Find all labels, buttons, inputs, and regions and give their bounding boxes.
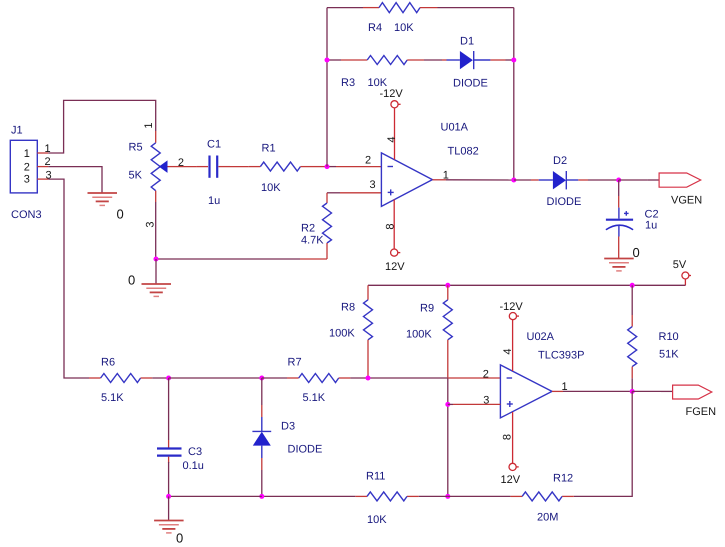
wire C2 top <box>618 180 620 196</box>
wire J1 pin2 to ground <box>48 167 102 193</box>
svg-text:1: 1 <box>24 148 30 160</box>
svg-text:U02A: U02A <box>527 331 555 343</box>
svg-text:3: 3 <box>145 222 157 228</box>
svg-text:D3: D3 <box>281 421 295 433</box>
connector FGEN <box>673 385 712 399</box>
svg-text:U01A: U01A <box>441 122 469 134</box>
junction D3 top <box>259 376 264 381</box>
junction FGEN node <box>630 389 635 394</box>
svg-text:0: 0 <box>117 207 124 222</box>
wire J1 pin3 to R6 <box>48 179 89 378</box>
svg-text:2: 2 <box>365 155 371 167</box>
wire node A to U01A pin2 <box>327 166 336 168</box>
power -12V symbol U01A <box>391 101 401 108</box>
svg-text:4.7K: 4.7K <box>301 235 324 247</box>
pin 8 wire of U01A <box>393 200 395 250</box>
wire R2 bottom row to R5 bottom <box>156 258 300 260</box>
svg-text:0.1u: 0.1u <box>183 460 204 472</box>
pin 8 wire of U02A <box>512 412 514 463</box>
svg-text:5K: 5K <box>129 170 143 182</box>
svg-text:R11: R11 <box>366 471 385 483</box>
junction output right column <box>511 178 516 183</box>
wire FGEN node down to R12 <box>574 391 632 496</box>
wire R4 top row left <box>327 7 363 9</box>
svg-text:4: 4 <box>386 136 398 142</box>
resistor R6 <box>101 374 141 383</box>
junction R5 bottom <box>154 257 159 262</box>
diode D1 <box>447 51 491 69</box>
junction R9 bottom row <box>445 494 450 499</box>
svg-text:2: 2 <box>24 161 30 173</box>
connector VGEN <box>659 173 701 187</box>
capacitor C3 <box>157 378 182 496</box>
wire left feedback column <box>326 8 328 167</box>
junction R3 left <box>325 58 330 63</box>
ground 0 below C2 <box>604 259 634 271</box>
junction R8 bottom <box>366 376 371 381</box>
svg-text:8: 8 <box>385 223 397 229</box>
resistor R1 <box>260 162 300 171</box>
wire R3 to D1 <box>407 59 424 61</box>
resistor R3 <box>367 56 407 65</box>
svg-text:3: 3 <box>24 174 30 186</box>
wire R12 to R9 column <box>510 495 522 497</box>
junction R9 top <box>445 283 450 288</box>
wire U02A output to FGEN <box>552 390 563 392</box>
diode D2 <box>539 171 579 189</box>
svg-text:10K: 10K <box>367 514 387 526</box>
svg-text:DIODE: DIODE <box>453 78 488 90</box>
wire D2 to VGEN <box>578 179 588 181</box>
svg-text:CON3: CON3 <box>11 209 42 221</box>
svg-text:R7: R7 <box>288 357 302 369</box>
capacitor C1 <box>210 156 218 178</box>
svg-text:0: 0 <box>633 245 640 260</box>
wire R5 wiper to C1 <box>168 166 180 168</box>
svg-text:R9: R9 <box>420 303 434 315</box>
svg-text:C3: C3 <box>188 446 202 458</box>
svg-text:100K: 100K <box>329 328 355 340</box>
svg-text:R5: R5 <box>129 142 143 154</box>
svg-text:D2: D2 <box>553 155 567 167</box>
svg-text:C1: C1 <box>207 139 221 151</box>
wire 5V rail <box>368 284 686 286</box>
junction D1 right <box>511 58 516 63</box>
wire D3 node to R7 <box>262 377 287 379</box>
wire R7 to U02A pin2 <box>339 377 351 379</box>
svg-text:8: 8 <box>502 434 514 440</box>
svg-text:R1: R1 <box>262 143 276 155</box>
svg-text:2: 2 <box>483 369 489 381</box>
ground 0 bottom <box>154 521 184 533</box>
svg-text:51K: 51K <box>659 349 679 361</box>
svg-text:-12V: -12V <box>500 301 524 313</box>
junction D3 bottom <box>259 494 264 499</box>
wire C3 node to D3 node <box>169 377 262 379</box>
svg-text:J1: J1 <box>11 125 23 137</box>
power 5V symbol <box>682 272 691 285</box>
svg-text:FGEN: FGEN <box>686 406 717 418</box>
svg-text:12V: 12V <box>501 474 521 486</box>
resistor R4 <box>379 3 420 13</box>
svg-text:5V: 5V <box>673 259 687 271</box>
svg-text:R6: R6 <box>101 357 115 369</box>
svg-text:0: 0 <box>128 273 135 288</box>
pin 4 wire of U01A <box>394 108 396 160</box>
ground 0 below R5 <box>142 284 172 296</box>
svg-text:TL082: TL082 <box>448 146 479 158</box>
wire J1 pin1 to R5 pin1 <box>48 100 155 153</box>
resistor R9 <box>443 285 452 377</box>
svg-text:12V: 12V <box>385 261 405 273</box>
op-amp U01A <box>381 153 432 207</box>
wire U02A pin3 tap <box>448 403 453 405</box>
svg-text:DIODE: DIODE <box>547 196 582 208</box>
resistor R8 <box>364 300 373 378</box>
resistor R7 <box>299 374 339 383</box>
svg-text:0: 0 <box>176 531 183 546</box>
power 12V symbol U01A <box>391 249 401 256</box>
wire R3 row left <box>327 59 341 61</box>
svg-text:D1: D1 <box>460 36 474 48</box>
svg-text:R2: R2 <box>301 223 315 235</box>
wire C2 bottom to ground <box>618 237 620 259</box>
resistor R11 <box>367 492 407 501</box>
svg-text:1u: 1u <box>645 219 657 231</box>
svg-text:DIODE: DIODE <box>288 444 323 456</box>
power 12V symbol U02A <box>509 463 519 470</box>
junction C3 top <box>166 376 171 381</box>
wire to ground below R5 <box>155 259 157 284</box>
svg-text:5.1K: 5.1K <box>101 392 124 404</box>
svg-text:R3: R3 <box>341 77 355 89</box>
wire U01A pin3 row <box>327 192 340 194</box>
wire R5 pin3 to bottom row <box>155 191 157 259</box>
svg-text:1u: 1u <box>208 195 220 207</box>
junction C3 bottom <box>166 494 171 499</box>
pin 4 wire of U02A <box>512 320 514 371</box>
wire D1 to right column <box>490 59 505 61</box>
svg-text:1: 1 <box>143 123 155 129</box>
capacitor C2 <box>606 208 633 237</box>
junction R9 pin3 tap <box>445 402 450 407</box>
svg-text:4: 4 <box>502 348 514 354</box>
svg-text:5.1K: 5.1K <box>303 392 326 404</box>
potentiometer R5 <box>151 143 167 191</box>
junction node A <box>325 164 330 169</box>
connector J1 <box>10 140 48 193</box>
svg-text:R10: R10 <box>659 331 679 343</box>
svg-text:-12V: -12V <box>380 88 404 100</box>
wire U01A output to D2 <box>432 179 446 181</box>
power -12V symbol U02A <box>509 313 519 320</box>
resistor R12 <box>522 492 562 501</box>
op-amp U02A <box>500 365 552 418</box>
wire to ground bottom <box>168 496 170 520</box>
svg-text:100K: 100K <box>406 329 432 341</box>
svg-text:R8: R8 <box>341 302 355 314</box>
resistor R2 <box>323 193 332 259</box>
junction C2 top <box>616 178 621 183</box>
ground 0 at J1 pin2 <box>88 193 118 205</box>
diode D3 <box>252 378 271 496</box>
wire R11 to D3 bottom <box>355 495 367 497</box>
svg-text:10K: 10K <box>261 182 281 194</box>
wire C1 to R1 <box>219 166 231 168</box>
wire right feedback column <box>513 8 515 180</box>
wire R5 pin1 stub <box>155 131 157 143</box>
wire R4 to right column <box>420 7 438 9</box>
wire D3 bottom to C3 bottom <box>169 495 262 497</box>
svg-text:R4: R4 <box>368 22 382 34</box>
svg-text:20M: 20M <box>537 512 558 524</box>
svg-text:3: 3 <box>370 179 376 191</box>
wire R9 column down <box>447 377 449 496</box>
svg-text:R12: R12 <box>553 473 573 485</box>
svg-text:10K: 10K <box>394 22 414 34</box>
wire R6 to C3 node <box>141 377 153 379</box>
wire R9 column to R11 <box>419 495 448 497</box>
svg-text:TLC393P: TLC393P <box>538 350 584 362</box>
svg-text:VGEN: VGEN <box>671 195 702 207</box>
wire R1 to node A <box>300 166 312 168</box>
resistor R10 <box>628 285 637 391</box>
junction R10 top <box>630 283 635 288</box>
